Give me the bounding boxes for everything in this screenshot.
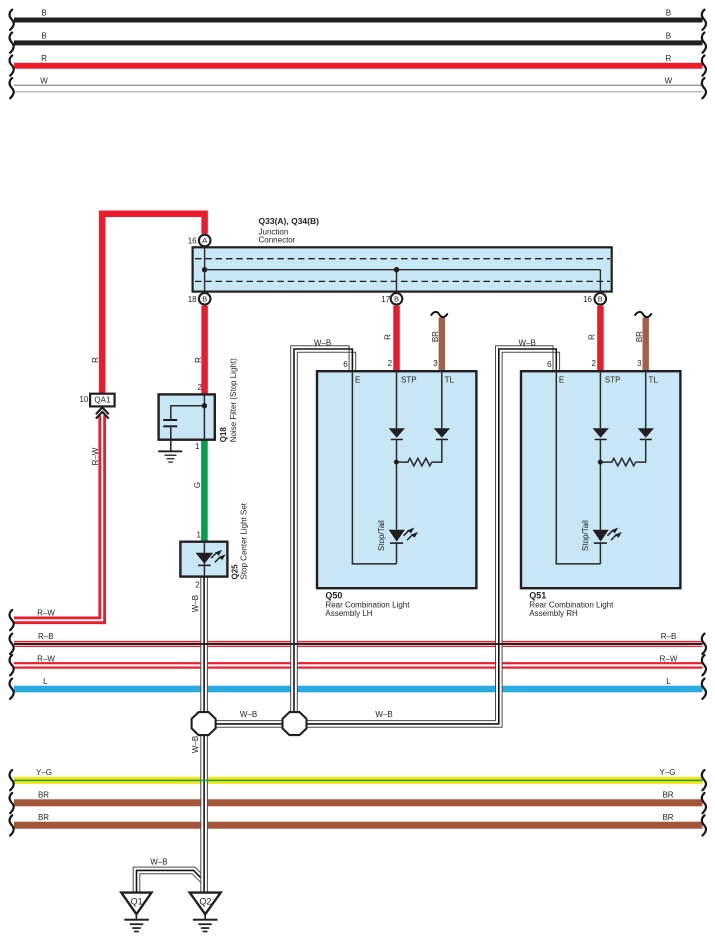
svg-text:Q2: Q2 [199, 896, 211, 906]
node dot A [202, 267, 207, 272]
wire drop to pin 16B [599, 270, 601, 293]
label Q51 [529, 591, 614, 618]
ground symbol below Q18 [158, 450, 182, 462]
svg-text:R–W: R–W [37, 654, 55, 663]
wire internal E line Q50 [352, 371, 396, 564]
LED stop/tail Q51 [593, 528, 622, 544]
LED stop/tail Q50 [389, 528, 418, 544]
wire R from QA1 over to junction connector pin 16A [91, 214, 205, 394]
component Q18 noise filter box [159, 394, 215, 439]
svg-text:Y–G: Y–G [36, 768, 52, 777]
wire BR into Q51 pin 3 [635, 312, 651, 372]
ground Q2 [190, 893, 221, 933]
wire internal TL line Q50 [432, 371, 442, 462]
diode TL Q51 [638, 428, 654, 440]
svg-text:R: R [41, 54, 47, 63]
svg-text:W–B: W–B [519, 338, 536, 347]
wire bus B (top 2) [10, 31, 706, 52]
wire internal Q18 to capacitor [171, 406, 205, 419]
pin circle B 18 [188, 293, 211, 305]
svg-text:1: 1 [195, 442, 200, 451]
capacitor C in Q18 [163, 419, 177, 427]
svg-text:R: R [384, 334, 393, 340]
wire R-W vertical from QA1 [10, 415, 106, 630]
svg-text:Stop/Tail: Stop/Tail [581, 520, 590, 551]
wire bus bar inside junction connector [205, 269, 601, 271]
node dot Q50 [394, 460, 399, 465]
svg-text:3: 3 [637, 359, 642, 368]
diode STP Q50 [389, 428, 405, 440]
svg-text:1: 1 [196, 530, 201, 539]
wire internal STP line Q50 [396, 371, 398, 564]
svg-text:Q33(A), Q34(B): Q33(A), Q34(B) [259, 216, 320, 226]
wire bus R-W (middle) [10, 654, 706, 675]
connector QA1 [79, 394, 114, 407]
svg-text:W–B: W–B [314, 338, 331, 347]
svg-text:R–B: R–B [661, 632, 677, 641]
svg-text:18: 18 [188, 295, 197, 304]
wire capacitor to ground [170, 427, 172, 450]
svg-text:STP: STP [401, 375, 417, 384]
svg-text:6: 6 [343, 360, 348, 369]
wire W-B between octagon junctions [204, 710, 393, 727]
svg-text:R: R [666, 54, 672, 63]
component Q25 box [180, 542, 227, 577]
svg-text:3: 3 [433, 359, 438, 368]
wire bus R (top 3) [10, 54, 706, 76]
junction connector box [193, 247, 612, 291]
node dot 17 [394, 267, 399, 272]
wire internal STP line Q51 [599, 371, 601, 564]
wire internal E line Q51 [556, 371, 600, 564]
svg-text:Q25: Q25 [230, 564, 239, 580]
resistor Q51 [600, 458, 635, 466]
wire internal Q18 vertical [203, 394, 205, 439]
wire bus BR (1) [10, 791, 706, 814]
svg-text:E: E [355, 375, 360, 384]
wire bus B (top 1) [10, 8, 706, 29]
diode STP Q51 [593, 428, 609, 440]
pin labels Q50 [343, 359, 454, 385]
svg-text:Q50: Q50 [325, 591, 342, 601]
svg-text:W: W [665, 76, 673, 85]
svg-text:Assembly RH: Assembly RH [529, 609, 578, 618]
label junction connector [259, 216, 320, 244]
svg-text:Q18: Q18 [219, 427, 228, 443]
svg-text:Stop/Tail: Stop/Tail [377, 520, 386, 551]
svg-text:2: 2 [388, 359, 393, 368]
pin circle A [188, 235, 211, 247]
svg-text:BR: BR [431, 331, 440, 342]
svg-text:B: B [202, 295, 207, 304]
junction octagon 1 [192, 712, 216, 735]
svg-text:BR: BR [662, 813, 673, 822]
stripe G of bus Y-G [14, 780, 703, 782]
wire internal TL line Q51 [636, 371, 646, 462]
svg-text:Stop Center Light Set: Stop Center Light Set [239, 502, 248, 579]
svg-text:L: L [666, 677, 671, 686]
node dot Q51 [598, 460, 603, 465]
component Q51 box [521, 371, 680, 588]
svg-text:W–B: W–B [150, 857, 167, 866]
svg-text:R: R [91, 357, 100, 363]
svg-text:BR: BR [662, 791, 673, 800]
pin circle B 17 [381, 293, 402, 305]
svg-text:TL: TL [649, 375, 659, 384]
svg-text:Noise Filter (Stop Light): Noise Filter (Stop Light) [229, 358, 238, 442]
wire drop to pin 17B [396, 270, 398, 293]
svg-text:B: B [41, 31, 46, 40]
svg-text:16: 16 [188, 237, 197, 246]
node dot Q18 [202, 403, 207, 408]
svg-text:B: B [41, 8, 46, 17]
svg-text:STP: STP [605, 375, 621, 384]
svg-text:W–B: W–B [240, 710, 257, 719]
svg-text:W–B: W–B [191, 736, 200, 753]
svg-text:B: B [598, 295, 603, 304]
svg-text:R: R [194, 357, 203, 363]
label Q50 [325, 591, 410, 618]
svg-text:W: W [40, 76, 48, 85]
junction octagon 2 [283, 712, 307, 735]
svg-text:R: R [588, 334, 597, 340]
diode TL Q50 [434, 428, 450, 440]
svg-text:W–B: W–B [191, 595, 200, 612]
shield chevrons below QA1 [96, 407, 109, 418]
svg-text:B: B [394, 295, 399, 304]
wire internal Q25 [203, 542, 205, 577]
svg-text:Q51: Q51 [529, 591, 546, 601]
svg-text:TL: TL [445, 375, 455, 384]
wire bus Y-G [10, 768, 706, 790]
resistor Q50 [397, 458, 432, 466]
svg-text:E: E [559, 375, 564, 384]
wire W-B main vertical from Q25 through octagon 1 to ground Q2 [191, 577, 207, 893]
svg-text:BR: BR [38, 813, 49, 822]
wire bus R-B [10, 632, 706, 654]
wire pin16A to pin18B through connector [204, 247, 206, 292]
wire R from junction 18B to Q18 [194, 306, 205, 395]
wire G from Q18 to Q25 [193, 439, 204, 543]
svg-text:17: 17 [381, 295, 390, 304]
svg-text:QA1: QA1 [94, 395, 111, 404]
svg-text:R–B: R–B [38, 632, 54, 641]
wire W-B from Q51 pin 6 down and across to octagon junction 2 [306, 338, 559, 727]
svg-text:Assembly LH: Assembly LH [325, 609, 372, 618]
svg-text:B: B [666, 31, 671, 40]
svg-text:Y–G: Y–G [659, 768, 675, 777]
LED D in Q25 [196, 550, 226, 566]
svg-text:2: 2 [197, 383, 202, 392]
ground Q1 [121, 893, 151, 933]
svg-text:Q1: Q1 [131, 896, 143, 906]
svg-text:G: G [193, 482, 202, 488]
svg-text:10: 10 [79, 395, 88, 404]
svg-text:W–B: W–B [375, 710, 392, 719]
svg-text:16: 16 [583, 295, 592, 304]
wire bus BR (2) [10, 813, 706, 836]
wire W-B from Q50 pin 6 down to octagon junction 2 [291, 338, 356, 712]
pin circle B 16 [583, 293, 606, 305]
svg-text:Connector: Connector [259, 235, 296, 244]
wire R from junction 17B to Q50 [384, 306, 397, 373]
wire bus L [10, 677, 706, 699]
svg-text:L: L [43, 677, 48, 686]
svg-text:A: A [202, 236, 207, 245]
svg-text:6: 6 [547, 360, 552, 369]
svg-text:2: 2 [195, 581, 200, 590]
svg-text:R–W: R–W [37, 609, 55, 618]
svg-text:2: 2 [592, 359, 597, 368]
wire BR into Q50 pin 3 [431, 312, 447, 372]
wire bus W (top 4) [10, 76, 706, 98]
stripe B of bus R-B [14, 643, 703, 645]
svg-text:B: B [666, 8, 671, 17]
component Q50 box [317, 371, 476, 588]
wire W-B branch to ground Q1 [133, 857, 206, 892]
svg-text:BR: BR [635, 331, 644, 342]
wire R from junction 16B to Q51 [588, 306, 601, 373]
pin labels Q51 [547, 359, 658, 385]
svg-text:BR: BR [38, 791, 49, 800]
svg-text:R–W: R–W [91, 447, 100, 465]
svg-text:R–W: R–W [660, 654, 678, 663]
